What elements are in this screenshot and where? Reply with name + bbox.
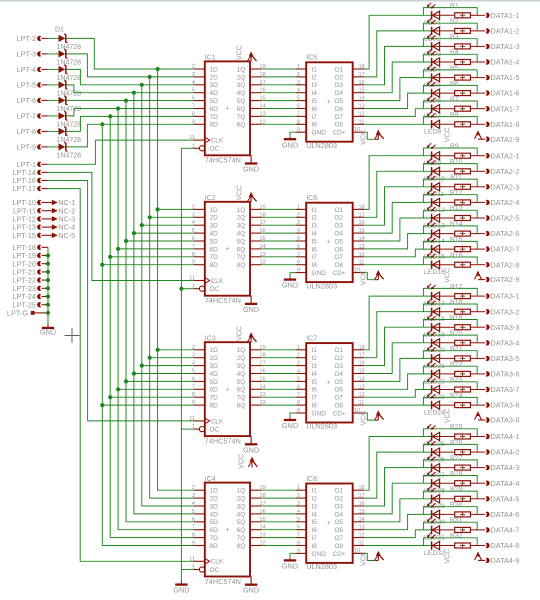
IC5 pin 12 O7 xyxy=(334,111,364,120)
svg-text:4: 4 xyxy=(192,80,195,86)
wire IC6 O2 to LED row 2 xyxy=(364,171,431,217)
svg-text:13: 13 xyxy=(359,384,365,390)
wire data bus D1 column xyxy=(150,77,194,498)
resistor R17 xyxy=(450,283,470,298)
IC4 pin 7 6D xyxy=(192,525,218,534)
svg-text:2D: 2D xyxy=(210,74,219,81)
svg-text:VCC: VCC xyxy=(360,270,367,285)
wire IC5 O5 to LED row 5 xyxy=(364,78,431,101)
svg-text:I7: I7 xyxy=(312,395,318,402)
IC2 pin 15 5Q xyxy=(237,236,266,245)
LED LED2 xyxy=(424,18,455,42)
wire IC2 6Q to IC6 I6 xyxy=(261,248,295,250)
svg-text:6D: 6D xyxy=(210,106,219,113)
svg-text:I6: I6 xyxy=(312,527,318,534)
svg-text:VCC: VCC xyxy=(360,551,367,566)
svg-text:8: 8 xyxy=(297,260,300,266)
svg-text:18: 18 xyxy=(359,485,365,491)
svg-text:7D: 7D xyxy=(210,114,219,121)
IC8 pin 6 I6 xyxy=(296,525,318,534)
svg-text:9: 9 xyxy=(297,268,300,274)
IC2 pin 1 OC xyxy=(192,284,220,293)
svg-text:DATA4-9: DATA4-9 xyxy=(491,556,520,565)
IC5 pin 17 O2 xyxy=(334,72,364,81)
svg-text:D1: D1 xyxy=(55,27,64,34)
junction xyxy=(108,114,112,118)
IC2 pin 3 2D xyxy=(192,212,218,221)
svg-text:LPT-5: LPT-5 xyxy=(17,81,36,90)
svg-text:O6: O6 xyxy=(334,106,343,113)
wire bypass bracket row DATA1-7 xyxy=(423,101,477,109)
svg-text:5Q: 5Q xyxy=(237,519,246,526)
IC5 pin 14 O5 xyxy=(334,96,364,105)
resistor R23 xyxy=(450,377,470,392)
svg-text:I5: I5 xyxy=(312,519,318,526)
connector pin LPT-4 xyxy=(17,65,48,74)
wire R30 to DATA4-6 xyxy=(470,513,485,515)
svg-text:4: 4 xyxy=(192,501,195,507)
svg-text:9: 9 xyxy=(192,400,195,406)
svg-text:OC: OC xyxy=(210,146,220,153)
svg-text:6: 6 xyxy=(192,236,195,242)
svg-text:I7: I7 xyxy=(312,114,318,121)
svg-text:11: 11 xyxy=(359,541,365,547)
IC1 pin 6 5D xyxy=(192,96,218,105)
wire bypass bracket row DATA2-4 xyxy=(423,195,477,203)
svg-text:2: 2 xyxy=(192,485,195,491)
power VCC DATA3-9 xyxy=(444,408,481,423)
LED LED1 xyxy=(424,3,455,27)
wire LED21 to R21 xyxy=(455,357,471,359)
svg-text:O6: O6 xyxy=(334,527,343,534)
wire bypass bracket row DATA1-2 xyxy=(423,23,477,31)
resistor R1 xyxy=(450,3,470,18)
svg-text:12: 12 xyxy=(359,392,365,398)
wire LPT-3 to diode D2 xyxy=(48,53,59,55)
wire R25 to DATA4-1 xyxy=(470,436,485,438)
connector pin DATA3-5 xyxy=(486,354,520,363)
resistor R32 xyxy=(450,533,470,548)
wire LED29 to R29 xyxy=(455,498,471,500)
ground GND IC1 xyxy=(243,155,259,173)
svg-text:3: 3 xyxy=(192,72,195,78)
LED LED20 xyxy=(424,330,455,354)
diode D3 1N4728 xyxy=(57,65,82,82)
svg-text:6: 6 xyxy=(192,517,195,523)
wire OC net vertical xyxy=(180,148,182,581)
wire IC4 5Q to IC8 I5 xyxy=(261,521,295,523)
ground GND IC6 xyxy=(282,277,298,289)
LED LED26 xyxy=(424,440,455,464)
svg-text:LED32: LED32 xyxy=(424,550,445,557)
IC1 pin 17 3Q xyxy=(237,80,266,89)
wire R13 to DATA2-5 xyxy=(470,217,485,219)
svg-text:R20: R20 xyxy=(450,330,463,337)
svg-text:6D: 6D xyxy=(210,387,219,394)
svg-text:I1: I1 xyxy=(312,66,318,73)
wire diode D8 to IC1 pin 9 xyxy=(67,124,194,147)
resistor R7 xyxy=(450,96,470,111)
connector pin LPT-17 xyxy=(12,184,47,193)
connector pin DATA2-6 xyxy=(486,229,520,238)
connector pin LPT-22 xyxy=(12,276,41,285)
IC7 pin 15 O4 xyxy=(334,369,364,378)
svg-text:16: 16 xyxy=(359,501,365,507)
svg-text:LED24: LED24 xyxy=(424,410,445,417)
wire data bus D6 column xyxy=(110,116,193,537)
svg-text:8Q: 8Q xyxy=(237,403,246,410)
svg-text:11: 11 xyxy=(359,400,365,406)
svg-text:I8: I8 xyxy=(312,543,318,550)
svg-text:DATA1-1: DATA1-1 xyxy=(491,11,520,20)
wire bus D6 to IC2 pin 8 xyxy=(110,256,193,258)
svg-text:DATA4-1: DATA4-1 xyxy=(491,432,520,441)
svg-text:DATA1-8: DATA1-8 xyxy=(491,120,520,129)
diode D4 1N4728 xyxy=(57,81,82,98)
svg-text:O4: O4 xyxy=(334,511,343,518)
IC6 pin 11 O8 xyxy=(334,260,364,269)
resistor R19 xyxy=(450,314,470,329)
svg-text:GND: GND xyxy=(243,445,259,454)
svg-text:74HC574N: 74HC574N xyxy=(205,156,241,165)
svg-text:I2: I2 xyxy=(312,74,318,81)
wire LPT-18 to ground rail xyxy=(42,246,49,248)
wire LED15 to R15 xyxy=(455,248,471,250)
svg-text:8: 8 xyxy=(297,400,300,406)
connector pin DATA1-7 xyxy=(486,104,520,113)
connector pin LPT-25 xyxy=(12,300,41,309)
svg-text:O2: O2 xyxy=(334,496,343,503)
resistor R26 xyxy=(450,439,470,454)
IC3 pin 5 4D xyxy=(192,369,218,378)
IC5 pin 5 I5 xyxy=(296,96,318,105)
svg-text:13: 13 xyxy=(359,104,365,110)
wire bypass bracket row DATA2-8 xyxy=(423,257,477,265)
IC2 pin 5 4D xyxy=(192,228,218,237)
IC5 pin 13 O6 xyxy=(334,104,364,113)
IC6 pin 2 I2 xyxy=(296,212,318,221)
wire IC8 O1 to LED row 1 xyxy=(364,437,431,491)
wire IC8 O2 to LED row 2 xyxy=(364,452,431,498)
wire IC1 7Q to IC5 I7 xyxy=(261,115,295,117)
svg-text:LPT-17: LPT-17 xyxy=(12,184,36,193)
IC3 pin 6 5D xyxy=(192,376,218,385)
svg-text:7D: 7D xyxy=(210,254,219,261)
IC6 pin 12 O7 xyxy=(334,252,364,261)
wire bus D0 to IC2 pin 2 xyxy=(158,208,194,210)
LED LED13 xyxy=(424,206,455,230)
svg-text:1N4728: 1N4728 xyxy=(57,59,82,66)
wire IC4 2Q to IC8 I2 xyxy=(261,497,295,499)
svg-text:5D: 5D xyxy=(210,519,219,526)
wire bus D5 to IC3 pin 7 xyxy=(118,388,194,390)
svg-text:7: 7 xyxy=(297,392,300,398)
svg-text:8: 8 xyxy=(192,533,195,539)
IC5 pin 2 I2 xyxy=(296,72,318,81)
svg-text:7Q: 7Q xyxy=(237,535,246,542)
IC6 pin 10 CD+ xyxy=(353,268,364,274)
svg-text:6Q: 6Q xyxy=(237,387,246,394)
connector pin DATA3-2 xyxy=(486,307,520,316)
IC5 pin 3 I3 xyxy=(296,80,318,89)
svg-text:6D: 6D xyxy=(210,527,219,534)
IC5 pin 15 O4 xyxy=(334,88,364,97)
svg-text:6Q: 6Q xyxy=(237,106,246,113)
wire R23 to DATA3-7 xyxy=(470,389,485,391)
svg-text:IC1: IC1 xyxy=(205,55,216,62)
IC5 pin 7 I7 xyxy=(296,111,318,120)
wire VCC to DATA1-9 xyxy=(478,138,485,140)
connector pin LPT-2 xyxy=(17,34,48,43)
wire IC4 1Q to IC8 I1 xyxy=(261,489,295,491)
IC6 pin 4 I4 xyxy=(296,228,318,237)
diode D1 1N4728 xyxy=(55,27,81,51)
IC4 pin 2 1D xyxy=(192,485,218,494)
wire bus D3 to IC3 pin 5 xyxy=(134,373,194,375)
resistor R13 xyxy=(450,205,470,220)
svg-text:74HC574N: 74HC574N xyxy=(205,296,241,305)
wire IC1 5Q to IC5 I5 xyxy=(261,100,295,102)
svg-text:VCC: VCC xyxy=(360,411,367,426)
LED LED10 xyxy=(424,159,455,183)
wire LED11 to R11 xyxy=(455,186,471,188)
connector pin LPT-6 xyxy=(17,96,48,105)
LED LED22 xyxy=(424,361,455,385)
junction xyxy=(156,348,160,352)
svg-text:6: 6 xyxy=(297,384,300,390)
op-amp IC8 ULN2803 driver xyxy=(306,476,353,571)
svg-text:O4: O4 xyxy=(334,231,343,238)
svg-text:DATA2-7: DATA2-7 xyxy=(491,245,520,254)
svg-text:11: 11 xyxy=(189,556,195,562)
svg-text:GND: GND xyxy=(243,165,259,174)
IC5 pin 10 CD+ xyxy=(353,127,364,133)
wire bypass bracket row DATA2-1 xyxy=(423,148,477,156)
connector pin DATA3-7 xyxy=(486,385,520,394)
svg-text:5: 5 xyxy=(297,517,300,523)
IC3 pin 3 2D xyxy=(192,353,218,362)
svg-text:O6: O6 xyxy=(334,246,343,253)
svg-text:10: 10 xyxy=(354,127,360,133)
wire IC3 5Q to IC7 I5 xyxy=(261,380,295,382)
wire LED23 to R23 xyxy=(455,389,471,391)
IC4 pin 18 2Q xyxy=(237,493,266,502)
connector pin DATA3-3 xyxy=(486,323,520,332)
wire IC7 O8 to LED row 8 xyxy=(364,404,431,406)
IC4 pin 13 7Q xyxy=(237,533,266,542)
resistor R21 xyxy=(450,346,470,361)
connector pin DATA3-9 xyxy=(486,416,520,425)
power VCC IC3 xyxy=(236,326,256,342)
svg-text:CLK: CLK xyxy=(211,418,224,425)
wire bypass bracket row DATA1-3 xyxy=(423,39,477,47)
wire LED25 to R25 xyxy=(455,436,471,438)
svg-text:10: 10 xyxy=(354,408,360,414)
wire IC6 O7 to LED row 7 xyxy=(364,249,431,257)
IC4 pin 11 CLK xyxy=(189,556,224,565)
IC4 pin 3 2D xyxy=(192,493,218,502)
svg-text:VCC: VCC xyxy=(444,408,451,423)
svg-text:R28: R28 xyxy=(450,470,463,477)
LED LED21 xyxy=(424,346,455,370)
IC4 pin 9 8D xyxy=(192,541,218,550)
svg-text:5: 5 xyxy=(192,88,195,94)
junction xyxy=(108,395,112,399)
wire R31 to DATA4-7 xyxy=(470,529,485,531)
junction xyxy=(124,99,128,103)
wire R5 to DATA1-5 xyxy=(470,77,485,79)
svg-text:+: + xyxy=(327,380,331,387)
svg-text:O2: O2 xyxy=(334,355,343,362)
ground GND IC2 xyxy=(243,296,259,314)
IC4 pin 16 4Q xyxy=(237,509,266,518)
wire LPT-24 to ground rail xyxy=(42,296,49,298)
resistor R8 xyxy=(450,112,470,127)
svg-text:74HC574N: 74HC574N xyxy=(205,436,241,445)
wire IC8 O8 to LED row 8 xyxy=(364,545,431,547)
wire bypass bracket row DATA4-5 xyxy=(423,491,477,499)
wire bus D6 to IC3 pin 8 xyxy=(110,396,193,398)
IC7 pin 10 CD+ xyxy=(353,408,364,414)
connector pin DATA1-8 xyxy=(486,120,520,129)
wire IC5 CD+ to VCC xyxy=(364,132,375,139)
connector pin LPT-1 xyxy=(17,160,48,169)
svg-text:GND: GND xyxy=(312,551,327,558)
IC1 pin 16 4Q xyxy=(237,88,266,97)
svg-text:1Q: 1Q xyxy=(237,66,246,73)
resistor R2 xyxy=(450,18,470,33)
wire OC net to IC4 OC xyxy=(181,569,193,571)
svg-text:4D: 4D xyxy=(210,231,219,238)
svg-text:CLK: CLK xyxy=(211,278,224,285)
junction xyxy=(124,239,128,243)
svg-text:14: 14 xyxy=(359,96,365,102)
svg-text:O8: O8 xyxy=(334,403,343,410)
wire bypass bracket row DATA3-2 xyxy=(423,304,477,312)
connector pin DATA1-3 xyxy=(486,42,520,51)
svg-text:R1: R1 xyxy=(450,3,459,10)
wire diode D4 to IC1 pin 5 xyxy=(67,85,194,93)
svg-text:R27: R27 xyxy=(450,455,463,462)
junction xyxy=(100,403,104,407)
svg-text:4Q: 4Q xyxy=(237,231,246,238)
IC8 pin 14 O5 xyxy=(334,517,364,526)
svg-text:I4: I4 xyxy=(312,90,318,97)
svg-text:7Q: 7Q xyxy=(237,254,246,261)
wire bypass bracket row DATA3-3 xyxy=(423,320,477,328)
svg-text:DATA3-2: DATA3-2 xyxy=(491,307,520,316)
IC2 pin 12 8Q xyxy=(237,260,266,269)
op-amp IC3 74HC574N latch xyxy=(205,336,250,446)
connector pin LPT-19 xyxy=(12,251,41,260)
svg-text:6Q: 6Q xyxy=(237,246,246,253)
svg-text:11: 11 xyxy=(189,416,195,422)
IC1 pin 13 7Q xyxy=(237,111,266,120)
wire bypass bracket row DATA3-8 xyxy=(423,397,477,405)
wire LED16 to R16 xyxy=(455,264,471,266)
resistor R28 xyxy=(450,470,470,485)
svg-text:R9: R9 xyxy=(450,143,459,150)
IC7 pin 6 I6 xyxy=(296,384,318,393)
wire IC1 1Q to IC5 I1 xyxy=(261,68,295,70)
IC8 pin 3 I3 xyxy=(296,501,318,510)
wire LED22 to R22 xyxy=(455,373,471,375)
junction xyxy=(148,215,152,219)
wire LED7 to R7 xyxy=(455,108,471,110)
wire LED3 to R3 xyxy=(455,45,471,47)
wire IC5 O4 to LED row 4 xyxy=(364,62,431,93)
svg-text:DATA1-7: DATA1-7 xyxy=(491,104,520,113)
svg-text:LPT-8: LPT-8 xyxy=(17,127,36,136)
svg-text:R19: R19 xyxy=(450,314,463,321)
svg-text:GND: GND xyxy=(312,130,327,137)
IC4 pin 15 5Q xyxy=(237,517,266,526)
svg-text:DATA4-4: DATA4-4 xyxy=(491,479,520,488)
op-amp IC4 74HC574N latch xyxy=(205,476,250,586)
IC6 pin 16 O3 xyxy=(334,220,364,229)
wire IC2 3Q to IC6 I3 xyxy=(261,224,295,226)
svg-text:8: 8 xyxy=(192,392,195,398)
connector pin DATA2-2 xyxy=(486,167,520,176)
wire IC1 8Q to IC5 I8 xyxy=(261,123,295,125)
wire IC6 O5 to LED row 5 xyxy=(364,218,431,241)
svg-text:I3: I3 xyxy=(312,223,318,230)
junction xyxy=(46,270,50,274)
connector pin DATA4-1 xyxy=(486,432,520,441)
svg-text:2: 2 xyxy=(297,212,300,218)
svg-text:O3: O3 xyxy=(334,503,343,510)
svg-text:GND: GND xyxy=(243,305,259,314)
svg-text:2: 2 xyxy=(297,353,300,359)
wire bypass bracket row DATA3-6 xyxy=(423,366,477,374)
svg-text:2: 2 xyxy=(192,345,195,351)
svg-text:5: 5 xyxy=(297,236,300,242)
wire IC2 8Q to IC6 I8 xyxy=(261,264,295,266)
IC8 pin 16 O3 xyxy=(334,501,364,510)
svg-text:DATA2-3: DATA2-3 xyxy=(491,182,520,191)
svg-text:O8: O8 xyxy=(334,122,343,129)
IC2 pin 16 4Q xyxy=(237,228,266,237)
connector pin DATA3-6 xyxy=(486,370,520,379)
IC5 pin 18 O1 xyxy=(334,64,364,73)
svg-text:7: 7 xyxy=(192,104,195,110)
svg-text:DATA1-9: DATA1-9 xyxy=(491,135,520,144)
resistor R12 xyxy=(450,190,470,205)
svg-text:2Q: 2Q xyxy=(237,355,246,362)
IC7 pin 9 GND xyxy=(296,408,307,414)
IC2 pin 14 6Q xyxy=(237,244,266,253)
wire R2 to DATA1-2 xyxy=(470,30,485,32)
wire bypass bracket row DATA3-7 xyxy=(423,382,477,390)
svg-text:3D: 3D xyxy=(210,503,219,510)
IC2 pin 8 7D xyxy=(192,252,218,261)
svg-text:3: 3 xyxy=(297,361,300,367)
diode D6 1N4728 xyxy=(57,112,82,129)
IC8 pin 15 O4 xyxy=(334,509,364,518)
svg-text:GND: GND xyxy=(312,410,327,417)
svg-text:8: 8 xyxy=(192,111,195,117)
svg-text:2: 2 xyxy=(192,204,195,210)
svg-text:R23: R23 xyxy=(450,377,463,384)
wire R18 to DATA3-2 xyxy=(470,311,485,313)
svg-text:O8: O8 xyxy=(334,262,343,269)
svg-text:+: + xyxy=(327,520,331,527)
svg-text:LPT-G: LPT-G xyxy=(7,309,28,318)
IC8 pin 2 I2 xyxy=(296,493,318,502)
resistor R5 xyxy=(450,65,470,80)
svg-text:O7: O7 xyxy=(334,535,343,542)
wire bus D7 to IC3 pin 9 xyxy=(102,404,193,406)
